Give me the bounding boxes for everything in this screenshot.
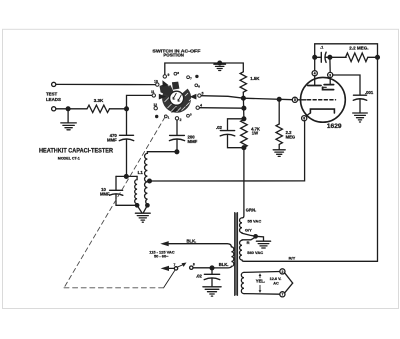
wire bottom test lead to resistor — [56, 108, 87, 110]
svg-text:.001: .001 — [365, 90, 374, 95]
node junction 1.5K bus — [242, 96, 246, 100]
wire color label R — [247, 240, 250, 245]
switch arrow bottom — [171, 107, 178, 113]
value label .02 line cap — [196, 274, 202, 279]
node junction test lead ground — [66, 107, 70, 111]
node junction contact4 wire — [242, 106, 246, 110]
wire color label R/Y — [289, 256, 296, 261]
wire .02 line cap lead — [211, 268, 213, 274]
tube label 1629 — [327, 123, 342, 130]
inductor L1 right winding — [145, 153, 148, 205]
svg-text:.02: .02 — [196, 274, 202, 279]
wire 200MMF to L1 node — [176, 140, 178, 152]
svg-text:50 - 60~: 50 - 60~ — [154, 254, 169, 259]
switch contact 2 — [175, 117, 181, 122]
dashed chassis diagonal — [64, 117, 165, 288]
subtitle MODEL CT-1 — [58, 156, 81, 161]
wire contact 9 up and right to 1.5K — [165, 63, 244, 75]
ground G6 transformer — [256, 241, 270, 248]
svg-text:6: 6 — [198, 85, 200, 89]
switch arrow right — [190, 94, 197, 100]
resistor R3 4.7K — [241, 120, 248, 148]
svg-text:540 VAC: 540 VAC — [247, 250, 263, 255]
svg-text:1: 1 — [168, 116, 170, 120]
wire 2.2MEG to right rail — [368, 56, 378, 58]
svg-text:4: 4 — [314, 72, 316, 76]
resistor R2 1.5K — [240, 72, 246, 92]
node junction 200MMF / L1 — [175, 150, 179, 154]
svg-text:8: 8 — [193, 263, 195, 267]
capacitor C7 .02 line — [204, 274, 220, 279]
wire GRN lead down to transformer — [242, 148, 244, 218]
wire contact 2 down to 200MMF — [176, 120, 178, 135]
svg-text:7: 7 — [281, 293, 283, 297]
wire 1.5K bottom to bus — [242, 92, 244, 98]
capacitor C4 200 MMF — [169, 135, 184, 140]
value label .1 — [320, 44, 324, 49]
wire top test lead to switch contact 10 — [56, 83, 155, 85]
value label 4.7K 1W — [251, 127, 260, 136]
switch lug dot upper — [195, 75, 198, 78]
wire pin3 to .001 — [333, 75, 360, 95]
svg-text:MMF: MMF — [188, 139, 198, 144]
svg-text:4: 4 — [200, 104, 202, 108]
node junction cap right — [328, 55, 332, 59]
heater extent arrow — [259, 273, 262, 293]
switch contact 9 — [163, 73, 169, 78]
svg-text:HEATHKIT CAPACI-TESTER: HEATHKIT CAPACI-TESTER — [39, 147, 113, 154]
ground G5 tank — [135, 213, 150, 222]
node junction .02 line cap — [210, 266, 214, 270]
switch rotor tab — [172, 82, 180, 90]
node junction 2.2MEG bus — [277, 97, 281, 101]
tube grid dashed — [298, 99, 336, 101]
svg-text:8: 8 — [177, 71, 179, 75]
svg-text:3.3K: 3.3K — [94, 98, 104, 103]
svg-text:3: 3 — [190, 112, 192, 116]
transformer T1 core — [235, 213, 238, 296]
label SWITCH IN AC-OFF POSITION — [152, 49, 200, 58]
value label 470 MMF — [107, 133, 117, 142]
svg-text:9: 9 — [168, 73, 170, 77]
resistor R5 2.2 MEG top — [346, 53, 368, 62]
tube pin 3 — [328, 72, 333, 77]
svg-text:GRN.: GRN. — [246, 207, 256, 212]
svg-text:1.5K: 1.5K — [250, 76, 260, 81]
wire heater bottom — [244, 293, 280, 296]
wire contact 5 to tube pin 5 — [201, 96, 292, 100]
switch rotor ring hatch — [165, 93, 193, 112]
terminal J2 test lead bottom — [52, 107, 56, 111]
switch hub wiper arrows — [173, 93, 182, 101]
ground G3 below 2.2MEG — [273, 145, 285, 157]
wire BLK bottom primary — [193, 266, 231, 268]
wire resistor to junction — [110, 108, 127, 110]
node L1 tap — [148, 179, 152, 183]
switch SW1b contact 8 — [190, 266, 193, 269]
wire L1 right winding top to node — [147, 151, 177, 154]
value label 1.5K — [250, 76, 260, 81]
inductor L1 left winding — [135, 176, 137, 205]
wire 470MMF down to L1 top — [126, 140, 128, 177]
svg-text:7: 7 — [190, 76, 192, 80]
wire branch to .02 cap — [228, 119, 244, 130]
label contact 7 — [173, 263, 175, 267]
node junction L1 box top — [124, 175, 128, 179]
value label 2.2 MEG. top — [349, 46, 368, 51]
op tube V1 1629 envelope — [301, 77, 346, 122]
switch contact 4 — [196, 104, 202, 110]
wire BLK top primary — [169, 244, 232, 247]
svg-text:2: 2 — [180, 118, 182, 122]
capacitor C1 470 MMF — [119, 135, 133, 140]
capacitor C5 .1 — [315, 52, 330, 62]
wire L1 tank box top — [116, 175, 137, 177]
svg-text:1W: 1W — [252, 131, 258, 136]
node junction cap left — [313, 55, 317, 59]
title HEATHKIT CAPACI-TESTER — [39, 147, 113, 154]
node junction 4.7K bottom — [242, 146, 246, 150]
svg-text:5: 5 — [202, 91, 204, 95]
tube target bracket — [310, 109, 334, 113]
terminal heater 2 — [280, 269, 285, 274]
wire L1 tap to tube pin 8 — [147, 121, 304, 181]
svg-text:10: 10 — [154, 79, 158, 83]
tube pin 4 — [312, 71, 317, 76]
switch lever link — [164, 270, 175, 288]
wire heater top — [244, 271, 280, 274]
svg-text:1629: 1629 — [327, 123, 342, 130]
svg-text:LEADS: LEADS — [46, 97, 61, 102]
svg-text:8: 8 — [303, 117, 305, 121]
switch arrow from contact 9 — [162, 80, 169, 87]
value label 200 MMF — [188, 134, 198, 144]
svg-text:R/Y: R/Y — [289, 256, 296, 261]
wire color label BLK. bottom — [219, 262, 229, 267]
wire color label GRN. — [246, 207, 256, 212]
svg-text:MODEL CT-1: MODEL CT-1 — [58, 156, 81, 161]
wire R tap — [242, 237, 255, 240]
svg-text:7: 7 — [173, 263, 175, 267]
ground G2 top — [214, 63, 226, 71]
wire tank left side upper — [115, 176, 117, 190]
wire color label YEL. — [256, 279, 265, 284]
svg-text:MMF: MMF — [107, 138, 117, 143]
svg-text:55 VAC: 55 VAC — [248, 219, 262, 224]
svg-text:MMF: MMF — [100, 192, 110, 197]
svg-text:AC: AC — [273, 281, 279, 285]
svg-text:5: 5 — [294, 98, 296, 102]
terminal heater 7 — [280, 292, 285, 297]
svg-text:BLK.: BLK. — [187, 238, 197, 243]
wire tank box bottom — [116, 204, 137, 206]
ground G4 below .001 — [353, 100, 368, 122]
value label 2.2 MEG vertical — [286, 130, 296, 140]
wire G/Y tap — [242, 233, 264, 241]
wire right rail down — [377, 57, 379, 261]
wire .02 bottom to bus — [228, 135, 244, 148]
switch rotor hub — [170, 91, 184, 105]
wire tank left side lower — [115, 195, 117, 206]
switch contact 12 — [153, 103, 157, 110]
value label 540 VAC — [247, 250, 263, 255]
switch lug O6 — [195, 84, 200, 89]
value label 3.3K — [94, 98, 104, 103]
switch arrow left — [159, 94, 166, 100]
label L1 — [138, 170, 144, 175]
tube pin 8 — [302, 116, 307, 121]
svg-text:2.2 MEG.: 2.2 MEG. — [349, 46, 368, 51]
resistor R1 3.3K — [87, 105, 109, 112]
node L1 winding bottoms — [135, 204, 149, 207]
wire bus down through junctions — [242, 98, 245, 119]
wire contact 8 to junction — [193, 267, 212, 269]
wire junction down to 470MMF — [126, 109, 128, 135]
switch lug O8 — [174, 71, 179, 75]
terminal J1 test lead top — [52, 82, 56, 86]
node junction right rail top — [376, 55, 380, 59]
dashed chassis bottom — [64, 287, 164, 289]
wire bypass top loop — [315, 44, 378, 58]
wire heater V bottom — [285, 283, 293, 293]
transformer secondary 540VAC winding — [240, 240, 242, 260]
switch contact 5 — [198, 91, 204, 97]
node G/Y junction — [254, 235, 257, 238]
capacitor C6 .001 — [353, 95, 366, 100]
wire pin3 cap junction — [329, 59, 331, 72]
svg-text:12: 12 — [153, 103, 157, 107]
wire color label BLK. top — [187, 238, 197, 243]
switch contact 10 — [154, 79, 159, 86]
svg-text:2: 2 — [281, 270, 283, 274]
svg-text:POSITION: POSITION — [163, 53, 184, 58]
switch lug O3 — [187, 112, 192, 117]
svg-text:.1: .1 — [320, 44, 324, 49]
switch rotor arm blob — [160, 84, 172, 96]
capacitor C3 .02 — [220, 131, 235, 136]
switch SW1b contact 7 — [174, 267, 177, 270]
svg-text:3: 3 — [329, 73, 331, 77]
wire converge to tank ground — [137, 205, 147, 212]
value label .001 — [365, 90, 374, 95]
value label .02 — [216, 125, 223, 130]
ground G1 — [61, 109, 77, 130]
value label 12.6 V. AC — [270, 277, 282, 285]
wire color label G/Y — [245, 228, 252, 233]
transformer heater YEL winding — [241, 272, 244, 293]
svg-text:.02: .02 — [216, 125, 223, 130]
transformer secondary 55VAC winding — [240, 218, 242, 233]
switch lug O1 — [164, 115, 169, 120]
wire R/Y tap to right rail — [242, 260, 378, 261]
tube plate bar left — [308, 76, 321, 86]
wire 2.2MEG down lead — [278, 99, 280, 124]
value label 55 VAC — [248, 219, 262, 224]
switch lug dot lower — [155, 115, 158, 118]
wire prong to contact 7 — [169, 267, 174, 269]
node junction 3.3K / 470MMF / contact 11 — [125, 107, 129, 111]
svg-text:11: 11 — [151, 90, 155, 94]
wire cap to 2.2MEG — [330, 56, 346, 58]
switch SW1b blade — [177, 263, 186, 268]
svg-text:G/Y: G/Y — [245, 228, 252, 233]
svg-text:L1: L1 — [138, 170, 144, 175]
wire junction up to switch contact 11 — [127, 95, 153, 108]
svg-text:R: R — [247, 240, 250, 245]
svg-text:YEL.: YEL. — [256, 279, 265, 284]
svg-text:BLK.: BLK. — [219, 262, 229, 267]
node junction .02 top — [242, 117, 246, 121]
wire contact 4 to 4.7K top — [199, 107, 244, 110]
switch lug O7 — [187, 76, 192, 81]
tube pin8 stub — [306, 113, 311, 116]
switch contact 11 — [151, 90, 156, 97]
tube pin 5 — [292, 97, 297, 102]
rotary switch SW1 — [151, 71, 204, 122]
AC plug prong bottom arrow — [161, 266, 169, 271]
switch rotor ring — [166, 88, 188, 109]
svg-text:MEG: MEG — [286, 134, 296, 139]
resistor R4 2.2 MEG — [276, 124, 282, 144]
value label 10 MMF — [100, 187, 110, 197]
node junction top ground — [218, 61, 222, 65]
wire heater V top — [285, 273, 293, 283]
label TEST LEADS — [46, 92, 61, 102]
label contact 8 — [193, 263, 195, 267]
label 115-125 VAC 50-60 — [149, 250, 174, 259]
transformer primary winding — [231, 247, 233, 267]
AC plug prong top arrow — [160, 241, 168, 246]
capacitor C2 10 MMF — [109, 190, 122, 195]
tube plate bar right — [323, 78, 334, 90]
wire pin4 cap junction — [314, 57, 316, 70]
ground G7 line cap — [203, 279, 221, 296]
